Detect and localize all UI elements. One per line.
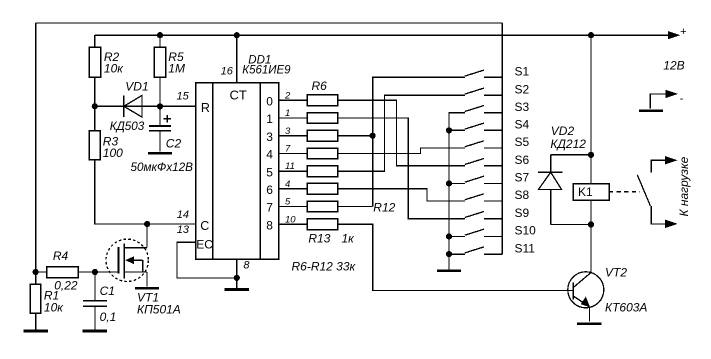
svg-text:C: C <box>200 219 209 233</box>
svg-text:R12: R12 <box>373 201 395 215</box>
svg-text:7: 7 <box>266 201 273 215</box>
resistor R2 <box>89 47 124 77</box>
wire C1 top <box>94 272 96 301</box>
svg-text:+: + <box>680 26 686 38</box>
wire pin15 <box>160 91 196 107</box>
node bus G S10 <box>446 233 452 239</box>
diode VD2 <box>538 124 586 224</box>
op-amp U1 counter DD1 К561ИЕ9 <box>196 55 291 260</box>
node bus G S7 <box>446 180 452 186</box>
node bus G S11 <box>446 251 452 257</box>
svg-text:13: 13 <box>177 224 190 236</box>
svg-text:50мкФх12В: 50мкФх12В <box>131 161 194 174</box>
transistor VT1 КП501А <box>106 239 181 316</box>
wire output 3 pin 3 <box>266 126 307 144</box>
svg-text:R: R <box>201 101 210 115</box>
wire pin14 <box>147 209 196 224</box>
switch S11 <box>465 241 535 255</box>
wire VD2 top link <box>551 154 591 156</box>
wire VT1 drain riser <box>146 224 148 248</box>
switch S1 <box>465 65 530 79</box>
wire output 1 pin 1 <box>266 108 307 126</box>
switch S5 <box>465 135 530 149</box>
wire row4 to S5 <box>338 148 465 153</box>
svg-text:0: 0 <box>266 95 273 109</box>
label R6-R12 33к <box>292 260 357 274</box>
svg-text:S11: S11 <box>515 241 536 255</box>
svg-text:КТ603А: КТ603А <box>605 300 647 314</box>
wire switch common bus <box>501 23 503 254</box>
svg-text:К нагрузке: К нагрузке <box>677 156 691 216</box>
wire row5 to S2 <box>338 95 465 171</box>
wire left rail <box>35 23 37 272</box>
wire gate lead <box>95 271 118 273</box>
svg-text:VT2: VT2 <box>605 266 627 280</box>
ground C1 <box>83 306 107 331</box>
node VD2 bottom <box>588 221 594 227</box>
svg-text:R6: R6 <box>312 79 328 93</box>
switch S2 <box>465 83 530 97</box>
wire C2 top <box>159 106 161 126</box>
ground minus terminal <box>639 109 663 112</box>
wire relay vertical top <box>590 35 592 183</box>
node R5 top <box>157 32 163 38</box>
ground R1 <box>24 313 48 331</box>
node pin14 <box>144 221 150 227</box>
wire R3 top <box>94 106 96 130</box>
wire R3 to pin14 <box>95 160 148 224</box>
svg-text:1: 1 <box>285 108 290 119</box>
wire row3 stub <box>338 135 373 137</box>
label К нагрузке <box>677 156 691 216</box>
capacitor C2 <box>131 115 194 174</box>
wire output 4 pin 7 <box>266 144 307 162</box>
wire bus G to S4 <box>449 129 465 131</box>
resistor ladder row 2 <box>307 113 337 124</box>
svg-text:S2: S2 <box>515 83 530 97</box>
wire bus G to S3 <box>449 113 465 270</box>
resistor ladder row 3 <box>307 130 337 141</box>
svg-text:1: 1 <box>266 112 273 126</box>
svg-text:C2: C2 <box>166 137 182 151</box>
svg-text:CT: CT <box>230 87 247 102</box>
svg-text:КД503: КД503 <box>110 120 145 133</box>
svg-text:10к: 10к <box>44 301 64 315</box>
switch S8 <box>465 188 530 202</box>
wire output 5 pin 11 <box>266 161 307 179</box>
resistor R3 <box>89 131 123 160</box>
wire bus G to S7 <box>449 182 465 184</box>
wire output 7 pin 5 <box>266 197 307 215</box>
svg-text:EC: EC <box>196 237 213 251</box>
relay K1 coil <box>573 184 609 201</box>
ground pin8 <box>225 278 249 290</box>
wire output 8 pin 10 <box>266 214 307 232</box>
terminal +12V arrow <box>668 26 687 40</box>
svg-text:15: 15 <box>177 91 190 103</box>
svg-text:S6: S6 <box>515 153 530 167</box>
terminal load top <box>651 156 677 173</box>
wire vertical A row7 to S1 <box>373 77 465 206</box>
svg-text:4: 4 <box>266 148 273 162</box>
switch S10 <box>465 224 536 238</box>
wire row6 to S8 <box>338 189 465 201</box>
wire C2 bottom <box>159 131 161 152</box>
svg-text:8: 8 <box>266 218 273 232</box>
wire VD2 bottom link <box>551 224 591 226</box>
svg-text:VD1: VD1 <box>125 80 148 94</box>
node relay top <box>588 32 594 38</box>
wire row8 R13 to VT2 base <box>338 224 574 290</box>
svg-text:S1: S1 <box>515 65 530 79</box>
svg-text:5: 5 <box>285 197 291 208</box>
wire VD1 row <box>95 105 160 107</box>
capacitor C1 <box>83 284 116 324</box>
svg-text:R4: R4 <box>53 249 69 263</box>
wire +12V supply rail <box>95 34 668 36</box>
node left rail R4 <box>33 269 39 275</box>
svg-text:6: 6 <box>266 183 273 197</box>
wire R4 right <box>78 271 95 273</box>
svg-text:S4: S4 <box>515 118 530 132</box>
ground switch bus <box>437 269 461 272</box>
wire R1 top <box>35 272 37 284</box>
svg-text:-: - <box>680 93 684 105</box>
svg-text:C1: C1 <box>100 284 115 298</box>
ground VT1 source <box>135 287 159 290</box>
wire row7 stub <box>338 206 373 208</box>
svg-text:5: 5 <box>266 165 273 179</box>
ground C2 <box>148 152 172 155</box>
transistor VT2 КТ603А <box>568 266 648 322</box>
switch S9 <box>465 206 530 220</box>
wire K1 dashed link <box>609 191 640 193</box>
svg-text:S5: S5 <box>515 135 530 149</box>
resistor ladder row 8 <box>307 219 355 246</box>
svg-text:R6-R12 33к: R6-R12 33к <box>292 260 357 274</box>
svg-text:3: 3 <box>285 126 291 137</box>
label R12 <box>373 201 395 215</box>
wire output 0 pin 2 <box>266 90 307 108</box>
svg-text:S8: S8 <box>515 188 530 202</box>
ground VT2 emitter <box>577 322 601 325</box>
svg-text:1к: 1к <box>342 232 356 246</box>
wire R2 bottom <box>94 77 96 106</box>
resistor ladder row 6 <box>307 183 337 194</box>
node pin16 <box>234 32 240 38</box>
svg-text:S9: S9 <box>515 206 530 220</box>
resistor ladder row 1 <box>307 79 337 106</box>
switch S6 <box>465 153 530 167</box>
node pin8 ground <box>234 275 240 281</box>
svg-text:2: 2 <box>284 90 291 101</box>
svg-text:3: 3 <box>266 130 273 144</box>
svg-text:16: 16 <box>221 66 234 78</box>
svg-text:14: 14 <box>177 209 189 221</box>
svg-text:S7: S7 <box>515 171 530 185</box>
node R2-R3-VD1 <box>92 103 98 109</box>
wire +12V top rail <box>36 22 503 24</box>
node VD1-C2-pin15 <box>157 103 163 109</box>
wire pin8 <box>237 259 251 278</box>
wire bus G to S10 <box>449 235 465 237</box>
svg-text:R13: R13 <box>308 232 330 246</box>
resistor ladder row 7 <box>307 201 337 212</box>
svg-text:10: 10 <box>285 214 296 225</box>
wire R5 bottom <box>159 77 161 106</box>
svg-text:К561ИЕ9: К561ИЕ9 <box>242 65 291 77</box>
svg-text:1М: 1М <box>168 62 185 76</box>
wire R2 top <box>94 35 96 47</box>
svg-text:S10: S10 <box>515 224 537 238</box>
svg-text:7: 7 <box>285 144 291 155</box>
diode VD1 <box>110 80 149 134</box>
svg-text:100: 100 <box>103 146 123 160</box>
wire R4 left <box>36 271 47 273</box>
resistor R4 <box>47 249 79 292</box>
wire pin13 EC <box>177 224 237 278</box>
svg-text:11: 11 <box>285 161 295 172</box>
wire bus G to S11 <box>449 253 465 255</box>
node bus G S4 <box>446 127 452 133</box>
node VD2 top <box>588 152 594 158</box>
svg-text:K1: K1 <box>578 185 593 199</box>
contact K1.1 lever <box>637 175 650 206</box>
node R4-C1-gate <box>92 269 98 275</box>
svg-text:10к: 10к <box>104 62 124 76</box>
wire relay to VT2 <box>590 200 592 272</box>
svg-text:4: 4 <box>285 179 290 190</box>
wire output 6 pin 4 <box>266 179 307 197</box>
label 12В <box>663 59 684 73</box>
terminal minus <box>650 90 684 109</box>
svg-text:КД212: КД212 <box>550 137 586 151</box>
switch S4 <box>465 118 530 132</box>
resistor R5 <box>154 47 185 77</box>
wire row2 to S9 <box>338 118 465 219</box>
svg-text:S3: S3 <box>515 100 530 114</box>
terminal load bottom <box>651 206 677 228</box>
switch S3 <box>465 100 530 114</box>
svg-text:8: 8 <box>243 260 250 272</box>
wire R5 top <box>159 35 161 47</box>
svg-text:0,1: 0,1 <box>100 310 117 324</box>
resistor ladder row 4 <box>307 148 337 159</box>
switch S7 <box>465 171 530 185</box>
svg-text:КП501А: КП501А <box>137 303 181 317</box>
resistor R1 <box>30 284 64 314</box>
wire pin16 <box>221 35 237 82</box>
resistor ladder row 5 <box>307 166 337 177</box>
svg-text:12В: 12В <box>663 59 684 73</box>
node row3-A <box>370 133 376 139</box>
wire row1 to S6 <box>338 100 465 165</box>
